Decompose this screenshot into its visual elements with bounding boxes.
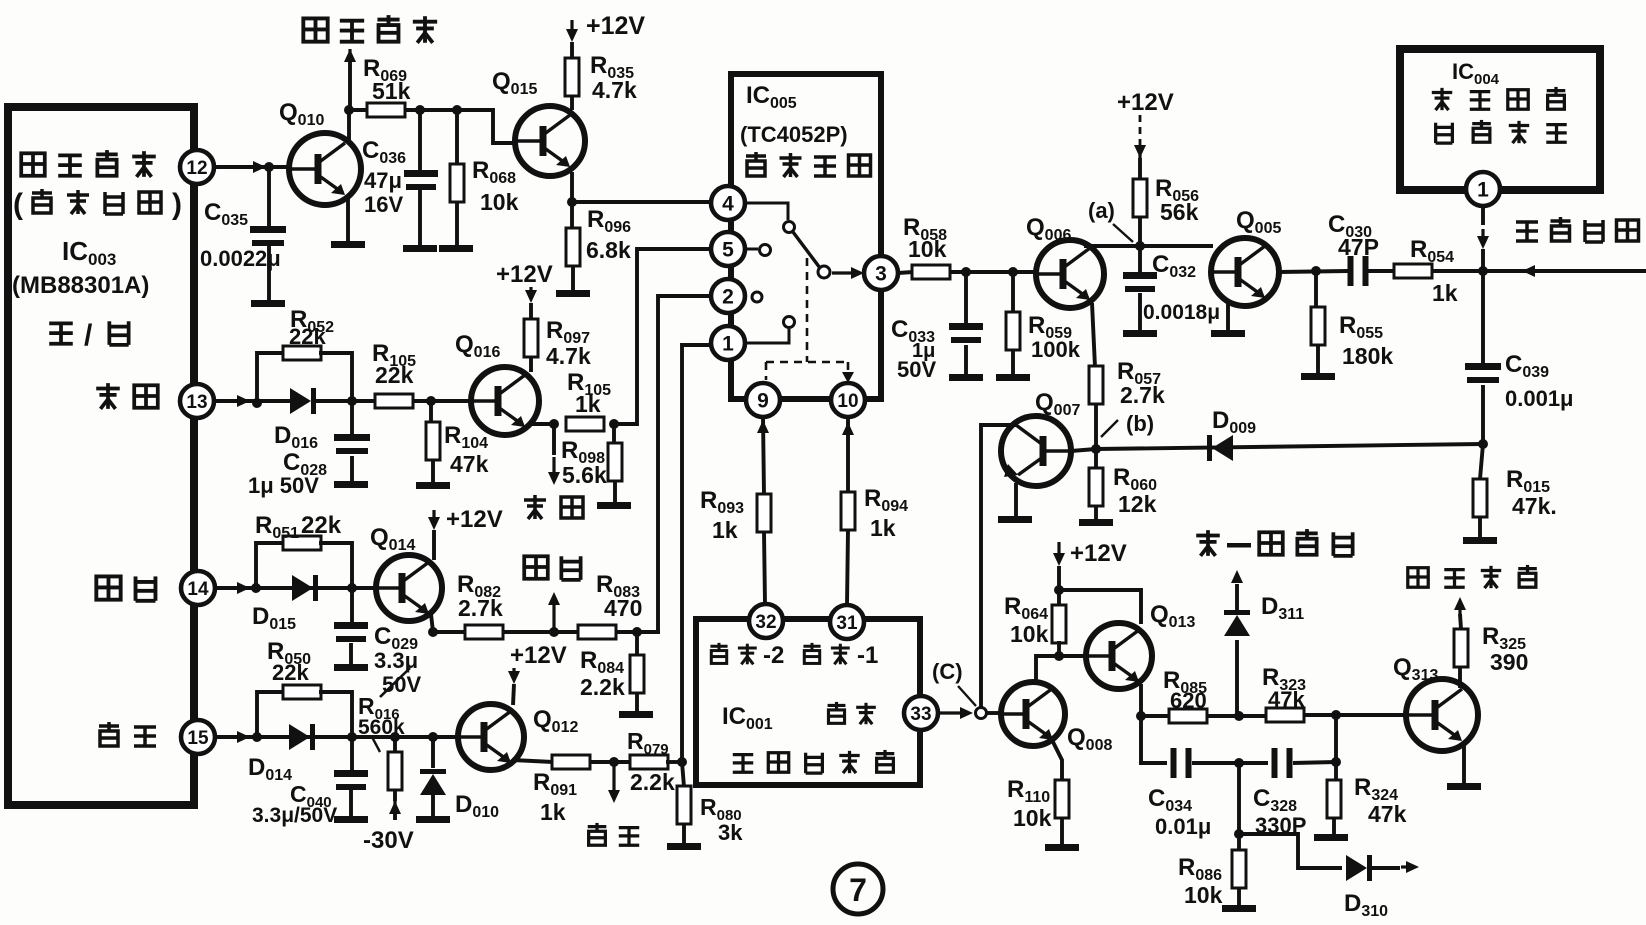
resistor R098 bbox=[612, 424, 616, 444]
Q013 emitter down bbox=[1139, 684, 1143, 716]
resistor R015 bbox=[1480, 444, 1483, 479]
Q007 emitter ground bbox=[1014, 483, 1018, 516]
svg-text:-2: -2 bbox=[763, 642, 784, 669]
svg-text:1k: 1k bbox=[1432, 280, 1458, 306]
transistor Q016 bbox=[471, 367, 539, 435]
text 亮度信号 bbox=[1408, 568, 1428, 588]
svg-text:2: 2 bbox=[722, 286, 734, 309]
wire to D310 bbox=[1239, 834, 1342, 868]
ground C032 bbox=[1123, 330, 1157, 337]
svg-text:5.6k: 5.6k bbox=[562, 462, 607, 488]
resistor R093 bbox=[757, 494, 771, 532]
wire R105 to IC005 pin5 bbox=[614, 249, 711, 424]
ground C040 bbox=[334, 816, 368, 823]
IC003 box text 数/模 bbox=[49, 323, 73, 343]
svg-text:390: 390 bbox=[1490, 649, 1528, 675]
svg-text:13: 13 bbox=[186, 392, 207, 413]
resistor R323 bbox=[1266, 708, 1304, 722]
wire pin14 row bbox=[215, 586, 377, 590]
svg-text:10k: 10k bbox=[1184, 882, 1223, 908]
resistor R110 bbox=[1055, 780, 1069, 818]
wire node c to Q008 base bbox=[987, 711, 1001, 715]
svg-text:32: 32 bbox=[755, 612, 776, 633]
diode D009 row bbox=[1096, 444, 1483, 449]
ground R015 bbox=[1463, 537, 1497, 544]
svg-text:5: 5 bbox=[722, 239, 734, 262]
svg-text:(a): (a) bbox=[1088, 198, 1115, 223]
svg-text:10k: 10k bbox=[908, 236, 947, 262]
node R069 right bbox=[415, 105, 425, 115]
wire R323/C328 junction bbox=[1334, 715, 1338, 781]
svg-text:56k: 56k bbox=[1160, 199, 1199, 225]
ground R084 bbox=[619, 711, 653, 718]
wire Q005 collector to R054 row bbox=[1279, 271, 1348, 272]
resistor R084 bbox=[635, 632, 639, 656]
ground R060 bbox=[1079, 519, 1113, 526]
capacitor C328 bbox=[1272, 748, 1278, 778]
resistor R085 bbox=[1169, 709, 1207, 723]
arrow up into pin9 bbox=[761, 420, 764, 431]
IC001 box text 中央处理机 bbox=[733, 755, 753, 773]
resistor R106 22k bbox=[375, 394, 413, 408]
ground R059 bbox=[996, 374, 1030, 381]
resistor R064 bbox=[1057, 590, 1061, 608]
ground R055 bbox=[1301, 373, 1335, 380]
resistor R069 bbox=[349, 108, 421, 112]
transistor Q013 bbox=[1086, 623, 1152, 689]
svg-text:-30V: -30V bbox=[363, 827, 414, 854]
pin 14 bbox=[181, 571, 215, 605]
Q313 emitter ground bbox=[1462, 742, 1466, 783]
svg-text:14: 14 bbox=[187, 579, 209, 600]
resistor R056 bbox=[1133, 179, 1147, 217]
resistor R059 bbox=[1011, 272, 1015, 313]
wire R064 to Q013 base bbox=[1059, 654, 1086, 658]
pin 9 bbox=[746, 383, 780, 417]
resistor R097 bbox=[529, 303, 533, 319]
svg-text:16V: 16V bbox=[364, 192, 403, 217]
arrow up into pin10 bbox=[846, 422, 849, 433]
capacitor C028 bbox=[350, 401, 354, 434]
IC U-IC003 video control box bbox=[8, 107, 194, 805]
svg-text:1: 1 bbox=[722, 333, 734, 356]
ground C036 bbox=[403, 245, 437, 252]
text 水平消隐 bbox=[1516, 222, 1538, 241]
pin 3 bbox=[864, 256, 898, 290]
svg-text:10: 10 bbox=[837, 391, 858, 412]
wire pin10 to R094 bbox=[846, 417, 850, 492]
resistor R324 bbox=[1327, 780, 1341, 818]
svg-text:0.001μ: 0.001μ bbox=[1505, 386, 1574, 411]
svg-text:+12V: +12V bbox=[1117, 89, 1174, 116]
svg-text:(C): (C) bbox=[932, 659, 963, 684]
text 彩色 mid bbox=[588, 823, 607, 845]
svg-text:2.7k: 2.7k bbox=[458, 595, 503, 621]
svg-text:100k: 100k bbox=[1031, 337, 1081, 362]
svg-text:(b): (b) bbox=[1126, 411, 1154, 436]
wire Q016 emitter bbox=[528, 422, 554, 426]
svg-text:2.7k: 2.7k bbox=[1120, 382, 1165, 408]
diode D310 bbox=[1346, 855, 1367, 881]
IC001 box text 彩条-2 彩条-1 bbox=[710, 643, 727, 664]
svg-text:0.01μ: 0.01μ bbox=[1155, 814, 1211, 839]
IC U-IC005 color bar switch box bbox=[731, 74, 881, 399]
svg-text:9: 9 bbox=[757, 390, 769, 413]
resistor R055 bbox=[1314, 271, 1318, 308]
svg-text:1k: 1k bbox=[540, 799, 566, 825]
ground R110 bbox=[1045, 844, 1079, 851]
page number 7 circled bbox=[833, 864, 883, 914]
svg-text:51k: 51k bbox=[372, 78, 411, 104]
switch lever bbox=[793, 232, 820, 268]
resistor R080 bbox=[682, 762, 684, 787]
transistor Q005 bbox=[1211, 238, 1279, 306]
wire and left arrow from right edge bbox=[1483, 269, 1646, 273]
resistor R068 bbox=[455, 110, 459, 166]
resistor R058 bbox=[898, 272, 913, 273]
transistor Q012 bbox=[458, 704, 524, 770]
wire Q015 emitter down bbox=[570, 172, 574, 202]
resistor R104 bbox=[429, 401, 433, 423]
svg-text:/: / bbox=[84, 319, 93, 352]
capacitor row C034/C328 bbox=[1141, 716, 1167, 763]
wire Q012 emitter row bbox=[512, 760, 553, 762]
ground R068 bbox=[439, 245, 473, 252]
transistor Q014 bbox=[376, 555, 442, 621]
svg-text:(MB88301A): (MB88301A) bbox=[12, 272, 149, 299]
transistor Q010 bbox=[289, 133, 361, 205]
svg-text:): ) bbox=[172, 188, 182, 221]
ground C035 bbox=[251, 300, 285, 307]
svg-text:47k: 47k bbox=[450, 451, 489, 477]
-30V arrow bbox=[393, 801, 396, 812]
resistor R086 bbox=[1237, 834, 1241, 852]
ground R086 bbox=[1222, 905, 1256, 912]
node (c) bbox=[976, 708, 987, 719]
wire +12V to Q013 collector bbox=[1059, 590, 1141, 624]
resistor R094 bbox=[841, 492, 855, 530]
ground Q010 bbox=[331, 241, 365, 248]
switch pole from pin4 bbox=[745, 203, 788, 220]
transistor Q008 bbox=[1001, 682, 1065, 746]
svg-text:47k: 47k bbox=[1368, 801, 1407, 827]
wire pin13 row bbox=[214, 399, 290, 403]
svg-text:3: 3 bbox=[875, 263, 887, 286]
wire R079 to IC005 pin1 bbox=[682, 345, 711, 762]
ground C033 bbox=[949, 374, 983, 381]
svg-text:3.3μ/50V: 3.3μ/50V bbox=[252, 804, 337, 827]
transistor Q015 bbox=[515, 106, 585, 176]
svg-text:3k: 3k bbox=[718, 820, 743, 845]
pin 2 bbox=[711, 279, 745, 313]
IC003 box text 音量 bbox=[96, 383, 120, 409]
svg-text:(TC4052P): (TC4052P) bbox=[740, 122, 848, 147]
svg-text:4.7k: 4.7k bbox=[592, 77, 637, 103]
svg-text:(: ( bbox=[13, 188, 23, 221]
svg-text:+12V: +12V bbox=[446, 506, 503, 533]
ground D010 bbox=[416, 816, 450, 823]
diode D010 to ground bbox=[431, 737, 435, 768]
pin 13 bbox=[180, 384, 214, 418]
IC003 box text 视频控制 bbox=[21, 153, 45, 175]
svg-text:+12V: +12V bbox=[586, 12, 645, 40]
volume output arrow 音量 bbox=[552, 424, 556, 455]
D311 branch bbox=[1235, 640, 1239, 716]
ground R098 bbox=[597, 502, 631, 509]
color output arrow 彩色 bbox=[612, 765, 615, 792]
svg-text:1μ 50V: 1μ 50V bbox=[248, 473, 319, 498]
transistor Q007 bbox=[1001, 416, 1071, 486]
svg-text:1k: 1k bbox=[712, 517, 738, 543]
resistor R052 parallel bbox=[257, 353, 285, 403]
IC U-IC001 central processor box bbox=[696, 619, 920, 785]
text 视频控制 top title bbox=[303, 18, 327, 41]
IC005 box text 彩条开关 bbox=[746, 152, 766, 176]
wire pin9 to R093 bbox=[763, 417, 764, 495]
pin 33 bbox=[904, 696, 938, 730]
svg-text:22k: 22k bbox=[375, 362, 414, 388]
text 音量 mid bbox=[524, 495, 546, 519]
pin 15 bbox=[181, 720, 215, 754]
ground R080 bbox=[667, 843, 701, 850]
capacitor C035 bbox=[267, 167, 271, 226]
IC001 box text 彩条 bbox=[828, 702, 846, 723]
node R069 left bbox=[344, 105, 354, 115]
resistor R051 parallel bbox=[256, 543, 285, 588]
switch arrow to pin3 bbox=[832, 271, 853, 274]
text 绿-亮信号 bbox=[1196, 530, 1220, 556]
pin 1 IC004 bbox=[1466, 172, 1500, 206]
resistor R083 bbox=[578, 625, 616, 639]
svg-text:22k: 22k bbox=[301, 512, 342, 539]
IC U-IC004 serial clock box bbox=[1400, 49, 1600, 190]
svg-text:0.0018μ: 0.0018μ bbox=[1143, 301, 1220, 324]
resistor R060 bbox=[1094, 449, 1098, 469]
svg-text:+12V: +12V bbox=[496, 261, 553, 288]
resistor R054 bbox=[1394, 264, 1432, 278]
diode D014 bbox=[289, 724, 310, 750]
svg-text:22k: 22k bbox=[272, 660, 309, 685]
capacitor C030 bbox=[1348, 256, 1354, 286]
transistor Q313 bbox=[1406, 679, 1478, 751]
pin 32 bbox=[749, 604, 783, 638]
svg-text:-1: -1 bbox=[857, 642, 878, 669]
pin 1 bbox=[711, 326, 745, 360]
wire pin12 to Q010 base bbox=[214, 165, 287, 169]
ground R324 bbox=[1314, 834, 1348, 841]
svg-text:10k: 10k bbox=[480, 189, 519, 215]
capacitor C033 bbox=[964, 272, 968, 323]
svg-text:2.2k: 2.2k bbox=[630, 769, 675, 795]
resistor R057 bbox=[1089, 366, 1103, 404]
resistor R325 bbox=[1454, 629, 1468, 667]
capacitor C034 bbox=[1171, 748, 1177, 778]
svg-text:560k: 560k bbox=[358, 716, 405, 739]
svg-text:3.3μ: 3.3μ bbox=[374, 648, 418, 673]
ground C028 bbox=[334, 481, 368, 488]
Q006 emitter down to R057 bbox=[1092, 303, 1095, 367]
svg-text:10k: 10k bbox=[1010, 621, 1049, 647]
svg-text:15: 15 bbox=[187, 728, 209, 749]
capacitor C040 bbox=[350, 737, 354, 770]
wire Q014 emitter to node bbox=[431, 614, 433, 632]
svg-text:1k: 1k bbox=[870, 515, 896, 541]
Q005 emitter ground bbox=[1226, 301, 1230, 330]
resistor R035 bbox=[565, 58, 579, 96]
row y632 wires bbox=[433, 630, 466, 634]
wire Q010 emitter to ground bbox=[346, 198, 350, 241]
pin2 stub contact bbox=[752, 292, 762, 302]
resistor R105 1k bbox=[566, 417, 604, 431]
svg-text:+12V: +12V bbox=[1070, 540, 1127, 567]
IC003 box text 图象 bbox=[96, 576, 120, 599]
svg-text:47k: 47k bbox=[1268, 687, 1305, 712]
svg-text:2.2k: 2.2k bbox=[580, 674, 625, 700]
svg-text:10k: 10k bbox=[1013, 805, 1052, 831]
IC004 box text 串行时钟 bbox=[1432, 88, 1452, 110]
svg-text:22k: 22k bbox=[289, 324, 326, 349]
diode D016 bbox=[290, 388, 311, 414]
R086 branch bbox=[1237, 763, 1241, 834]
svg-text:6.8k: 6.8k bbox=[586, 237, 631, 263]
pin5 stub contact bbox=[745, 248, 758, 251]
wire R069 to Q015 base bbox=[420, 110, 516, 143]
IC003 box text 彩色 bbox=[99, 722, 119, 746]
ground R104 bbox=[416, 482, 450, 489]
Q007 collector wire to node c line bbox=[981, 425, 1016, 708]
capacitor C036 bbox=[418, 110, 422, 170]
svg-text:0.0022μ: 0.0022μ bbox=[200, 246, 281, 271]
svg-text:7: 7 bbox=[849, 872, 867, 908]
arrow pin1 down bbox=[1481, 206, 1485, 225]
svg-text:4.7k: 4.7k bbox=[546, 343, 591, 369]
wire to Q008 collector bbox=[1036, 656, 1059, 684]
pin 31 bbox=[830, 605, 864, 639]
wire Q010 collector up bbox=[347, 110, 351, 142]
svg-text:47μ: 47μ bbox=[364, 168, 402, 193]
svg-text:47k.: 47k. bbox=[1512, 493, 1557, 519]
capacitor C032 bbox=[1138, 246, 1142, 272]
transistor Q006 bbox=[1036, 240, 1104, 308]
output arrow to 视频控制 bbox=[348, 49, 351, 60]
svg-text:12: 12 bbox=[186, 158, 207, 179]
text 图象 mid bbox=[524, 556, 548, 578]
svg-text:31: 31 bbox=[836, 613, 858, 634]
wire Q006 collector row bbox=[1084, 244, 1213, 248]
pin 5 bbox=[711, 232, 745, 266]
svg-text:1k: 1k bbox=[575, 391, 601, 417]
IC004 box text 脉冲振荡 bbox=[1436, 123, 1453, 143]
resistor R050 parallel bbox=[257, 692, 285, 737]
svg-text:620: 620 bbox=[1170, 688, 1207, 713]
pin 10 bbox=[831, 383, 865, 417]
pin1 stub contact bbox=[745, 329, 789, 343]
svg-text:1: 1 bbox=[1477, 179, 1489, 202]
svg-text:47P: 47P bbox=[1338, 234, 1379, 260]
svg-text:33: 33 bbox=[910, 704, 931, 725]
ground R096 bbox=[556, 290, 590, 297]
picture output arrow 图象 bbox=[552, 603, 555, 628]
luminance output arrow bbox=[1458, 608, 1461, 615]
wire C030 to R054 bbox=[1368, 269, 1395, 273]
arrow pin33 to node c bbox=[939, 711, 962, 714]
resistor R082 bbox=[465, 625, 503, 639]
svg-text:470: 470 bbox=[604, 595, 642, 621]
pin 4 bbox=[711, 186, 745, 220]
Q008 emitter to R110 bbox=[1051, 738, 1062, 781]
R085 row bbox=[1136, 711, 1146, 721]
capacitor C039 bbox=[1481, 271, 1485, 363]
wire R083 to IC005 pin2 bbox=[637, 296, 711, 632]
switch control dashed lines bbox=[806, 258, 809, 362]
svg-text:180k: 180k bbox=[1342, 343, 1393, 369]
wire to IC005 pin4 bbox=[572, 200, 711, 204]
svg-text:+12V: +12V bbox=[510, 642, 567, 669]
wire Q007 to node b bbox=[1071, 449, 1096, 451]
Q313 collector up to R325 bbox=[1458, 667, 1462, 688]
resistor R091 bbox=[552, 755, 590, 769]
svg-text:50V: 50V bbox=[897, 357, 936, 382]
diode D015 bbox=[292, 575, 313, 601]
capacitor C029 bbox=[350, 588, 354, 622]
ground C029 bbox=[334, 664, 368, 671]
wire pin15 row bbox=[215, 735, 460, 739]
svg-text:4: 4 bbox=[722, 193, 734, 216]
svg-text:12k: 12k bbox=[1118, 491, 1157, 517]
pin 12 bbox=[180, 150, 214, 184]
resistor R096 bbox=[570, 202, 574, 229]
resistor R079 bbox=[630, 755, 668, 769]
